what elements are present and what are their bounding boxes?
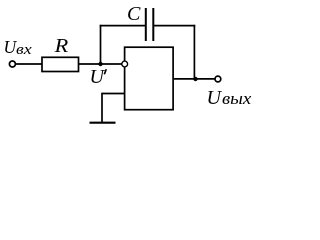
svg-text:U: U — [90, 66, 106, 88]
svg-text:U: U — [207, 87, 223, 109]
svg-text:вых: вых — [222, 89, 252, 108]
svg-text:вх: вх — [16, 42, 32, 58]
svg-text:C: C — [127, 3, 141, 25]
svg-text:R: R — [53, 36, 68, 57]
